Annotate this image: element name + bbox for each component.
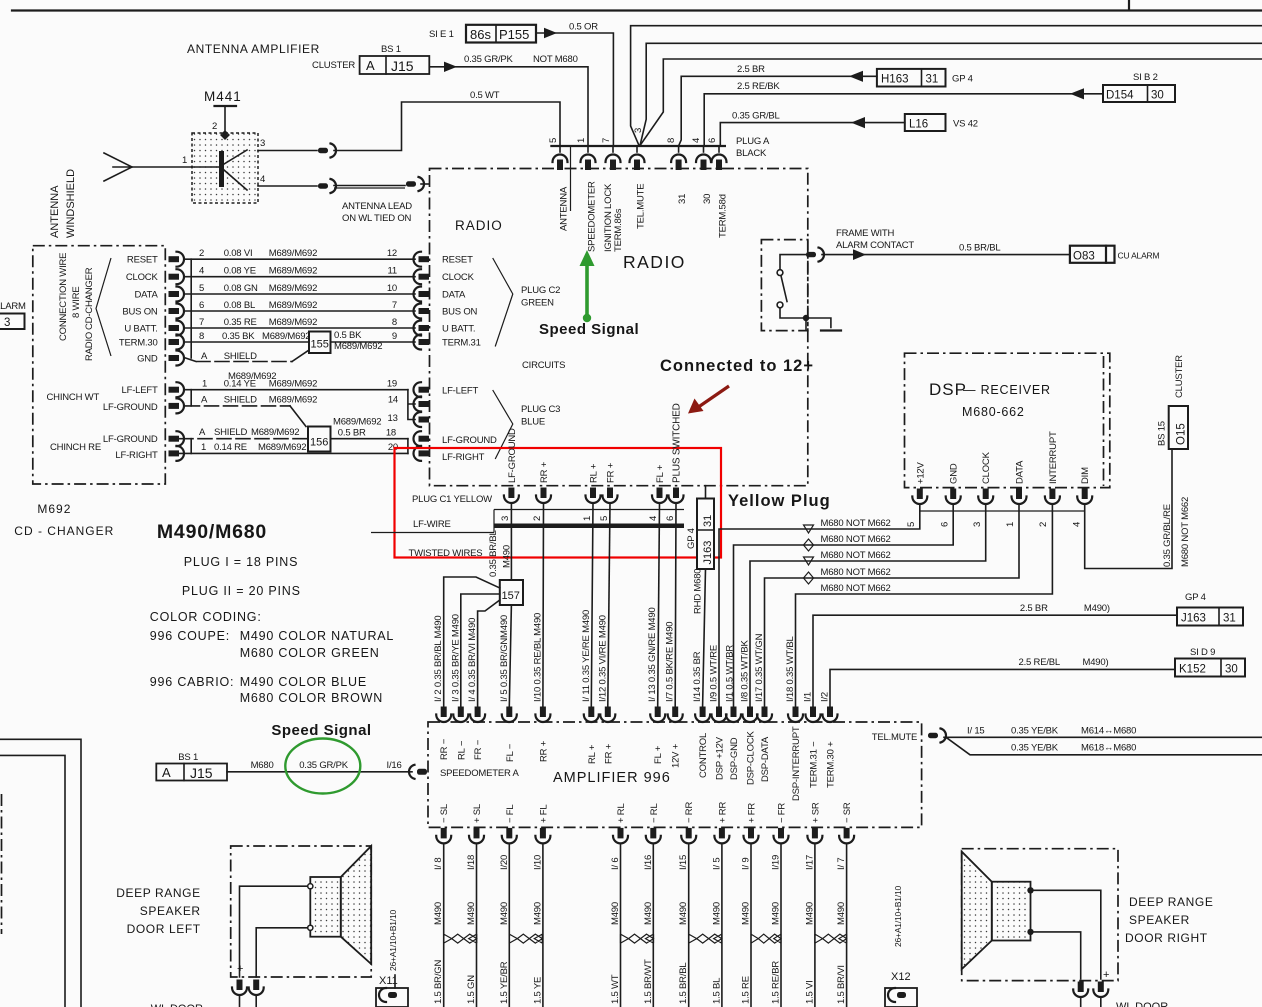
svg-text:SHIELD: SHIELD — [224, 395, 257, 406]
radio plug A pin 6 — [718, 146, 720, 152]
svg-text:− SR: − SR — [842, 802, 853, 823]
svg-text:M689/M692: M689/M692 — [258, 442, 306, 453]
connector X11 — [376, 975, 408, 1007]
svg-text:LF-GROUND: LF-GROUND — [442, 435, 497, 446]
wire row chinch 18 shield — [179, 417, 408, 439]
svg-text:ON WL TIED ON: ON WL TIED ON — [342, 213, 412, 224]
svg-text:VS 42: VS 42 — [953, 119, 978, 130]
antenna windshield symbol — [104, 153, 192, 181]
svg-text:I/2: I/2 — [820, 692, 831, 702]
svg-text:8: 8 — [666, 138, 677, 143]
svg-text:0.35 GR/BL/RE: 0.35 GR/BL/RE — [1162, 504, 1173, 567]
DSP pin labels — [915, 431, 1091, 484]
radio plug A pin 5 — [559, 146, 561, 152]
svg-text:1: 1 — [182, 155, 187, 166]
svg-text:DATA: DATA — [1015, 460, 1026, 484]
svg-text:I/ 9: I/ 9 — [741, 858, 752, 870]
svg-text:1.5 YE/BR: 1.5 YE/BR — [499, 961, 510, 1004]
svg-text:A: A — [162, 765, 171, 780]
wire line4 to tel.mute pin — [640, 59, 1262, 146]
svg-text:M490: M490 — [502, 545, 513, 568]
wire 0.35 GR/PK speed signal — [227, 760, 412, 772]
wire DIM to cluster O15 — [1085, 449, 1172, 569]
svg-text:I/1: I/1 — [803, 692, 814, 702]
svg-text:4: 4 — [691, 138, 702, 143]
yellow plug highlight box — [395, 448, 722, 558]
svg-text:0.5 WT: 0.5 WT — [470, 90, 500, 101]
radio plug C1 pins — [504, 488, 684, 504]
splice 157 — [500, 580, 523, 605]
labels M680 NOT M662 — [821, 518, 891, 594]
radio plug A pin 4 — [703, 146, 705, 152]
svg-text:0.35 BK: 0.35 BK — [222, 331, 255, 342]
svg-text:5: 5 — [906, 522, 917, 527]
svg-text:0.08 GN: 0.08 GN — [224, 283, 258, 294]
svg-text:RL +: RL + — [587, 744, 598, 764]
brace plug C2 — [493, 258, 513, 347]
connector O15 (cluster BS 15) — [1157, 355, 1189, 449]
svg-text:ALARM CONTACT: ALARM CONTACT — [836, 240, 914, 251]
svg-text:GREEN: GREEN — [521, 298, 554, 309]
svg-text:M680 NOT M662: M680 NOT M662 — [821, 567, 891, 578]
svg-text:GP 4: GP 4 — [952, 74, 973, 85]
svg-text:0.35 YE/BK: 0.35 YE/BK — [1011, 726, 1059, 737]
amp bottom pin labels — [439, 802, 853, 823]
svg-text:M689/M692: M689/M692 — [333, 417, 381, 428]
svg-text:M689/M692: M689/M692 — [334, 341, 382, 352]
svg-text:U BATT.: U BATT. — [124, 324, 157, 335]
svg-text:0.08 VI: 0.08 VI — [224, 248, 253, 259]
TEL.MUTE pin — [872, 726, 1262, 755]
svg-text:DIM: DIM — [1080, 467, 1091, 484]
svg-text:TWISTED WIRES: TWISTED WIRES — [409, 548, 483, 559]
CD changer pins — [169, 252, 185, 461]
svg-text:BS 1: BS 1 — [381, 44, 401, 55]
svg-text:PLUG II = 20 PINS: PLUG II = 20 PINS — [182, 584, 301, 598]
wire 2.5 BR to J163 — [813, 603, 1177, 706]
wire M680 row5 — [796, 505, 1053, 706]
svg-text:2: 2 — [532, 516, 543, 521]
svg-text:LF-LEFT: LF-LEFT — [442, 386, 478, 397]
svg-text:M490: M490 — [466, 902, 477, 925]
svg-text:BLUE: BLUE — [521, 417, 545, 428]
svg-text:M680 NOT M662: M680 NOT M662 — [821, 583, 891, 594]
svg-text:I/ 5: I/ 5 — [711, 858, 722, 870]
svg-text:DEEP RANGE: DEEP RANGE — [116, 886, 200, 900]
svg-text:TERM.31: TERM.31 — [442, 338, 481, 349]
svg-text:I/12 0.35 VI/RE M490: I/12 0.35 VI/RE M490 — [597, 615, 608, 702]
svg-text:CU ALARM: CU ALARM — [1118, 251, 1160, 261]
svg-text:M689/M692: M689/M692 — [251, 427, 299, 438]
wire row U BATT — [186, 317, 416, 328]
wire line3 to tel.mute pin — [640, 43, 1262, 145]
svg-text:6: 6 — [665, 516, 676, 521]
svg-text:BUS ON: BUS ON — [442, 307, 478, 318]
svg-text:RESET: RESET — [127, 255, 158, 266]
wire row CLOCK — [186, 266, 416, 277]
svg-text:GND: GND — [137, 354, 158, 365]
DSP pins — [912, 489, 1092, 505]
svg-text:8 WIRE: 8 WIRE — [71, 286, 82, 318]
alarm contact pin — [806, 248, 824, 262]
label DEEP RANGE SPEAKER DOOR LEFT — [116, 886, 201, 936]
svg-text:COLOR CODING:: COLOR CODING: — [150, 610, 262, 624]
radio side shield bus — [408, 390, 415, 454]
svg-text:PLUG A: PLUG A — [736, 136, 770, 147]
svg-text:M490: M490 — [643, 902, 654, 925]
svg-text:DSP-CLOCK: DSP-CLOCK — [746, 731, 757, 785]
svg-text:18: 18 — [386, 428, 396, 439]
svg-text:1: 1 — [202, 379, 207, 390]
svg-text:ANTENNA AMPLIFIER: ANTENNA AMPLIFIER — [187, 42, 320, 56]
svg-text:J15: J15 — [391, 58, 414, 74]
wire M680 row1 — [719, 505, 920, 706]
svg-text:M490: M490 — [771, 902, 782, 925]
svg-text:7: 7 — [601, 138, 612, 143]
svg-text:I/ 5 0.35 BR/GNM490: I/ 5 0.35 BR/GNM490 — [499, 615, 510, 702]
svg-text:CONTROL: CONTROL — [698, 733, 709, 778]
speedometer A pin — [409, 765, 427, 779]
wire RL- fan — [461, 594, 500, 706]
radio top pin labels — [559, 181, 729, 252]
svg-text:RADIO: RADIO — [623, 252, 686, 272]
svg-text:DOOR LEFT: DOOR LEFT — [127, 922, 201, 936]
svg-text:0.35 RE: 0.35 RE — [224, 317, 257, 328]
svg-text:M692: M692 — [37, 502, 71, 516]
svg-text:M689/M692: M689/M692 — [269, 379, 317, 390]
svg-text:J15: J15 — [190, 765, 213, 781]
svg-text:I/ 7: I/ 7 — [836, 858, 847, 870]
wire RR+ — [542, 503, 545, 706]
svg-text:8: 8 — [199, 331, 204, 342]
svg-text:I/ 3 0.35 BR/YE M490: I/ 3 0.35 BR/YE M490 — [450, 614, 461, 702]
svg-text:M490: M490 — [532, 902, 543, 925]
connector J163|31 right (GP 4) — [1177, 592, 1243, 626]
svg-text:− RL: − RL — [649, 803, 660, 823]
svg-text:M680-662: M680-662 — [962, 405, 1025, 419]
svg-text:DSP-DATA: DSP-DATA — [760, 736, 771, 782]
wire 2.5 BR to pin 31 — [679, 64, 877, 146]
svg-text:CIRCUITS: CIRCUITS — [522, 360, 565, 371]
svg-text:4: 4 — [260, 174, 265, 185]
radio plug C3 pins — [414, 382, 430, 461]
svg-text:TEL.MUTE: TEL.MUTE — [872, 732, 917, 743]
svg-text:0.08 BL: 0.08 BL — [224, 300, 255, 311]
cluster connector A|J15 (BS 1) — [312, 44, 429, 74]
wire line2 to tel.mute pin — [631, 26, 1262, 146]
svg-text:31: 31 — [702, 515, 714, 527]
svg-text:Connected to 12+: Connected to 12+ — [660, 357, 814, 375]
left edge dash border — [1, 794, 3, 934]
alarm contact switch box — [761, 240, 807, 331]
wire row chinch 14 shield — [186, 395, 399, 427]
svg-text:RADIO: RADIO — [455, 218, 503, 233]
svg-text:I/16: I/16 — [387, 760, 402, 771]
wire 2.5 RE/BK to pin 30 — [704, 81, 1103, 146]
svg-text:0.35 GR/PK: 0.35 GR/PK — [464, 54, 514, 65]
svg-text:K152: K152 — [1179, 664, 1206, 676]
svg-text:M689/M692: M689/M692 — [269, 283, 317, 294]
svg-text:I/18: I/18 — [466, 855, 477, 870]
svg-text:M680 NOT M662: M680 NOT M662 — [821, 518, 891, 529]
wire LF-GROUND to splice 157 — [510, 503, 512, 580]
radio top pin numbers — [548, 128, 718, 143]
svg-text:1: 1 — [1005, 522, 1016, 527]
svg-text:DSP-INTERRUPT: DSP-INTERRUPT — [791, 726, 802, 801]
svg-text:12: 12 — [387, 248, 397, 259]
svg-text:CD - CHANGER: CD - CHANGER — [14, 524, 114, 538]
svg-text:FR −: FR − — [473, 739, 484, 760]
svg-text:PLUS SWITCHED: PLUS SWITCHED — [672, 403, 683, 483]
wire M680 row4 — [765, 505, 1020, 706]
wire row TERM30 — [186, 330, 416, 352]
wire RL+ — [591, 503, 593, 706]
splice 155 — [309, 332, 331, 354]
svg-text:I/18 0.35 WT/BL: I/18 0.35 WT/BL — [785, 636, 796, 702]
svg-text:2: 2 — [1038, 522, 1049, 527]
right speaker wires — [1031, 890, 1101, 979]
svg-text:12V +: 12V + — [671, 743, 682, 768]
arrow connected to 12+ — [688, 386, 729, 414]
svg-text:CHINCH RE: CHINCH RE — [50, 442, 101, 453]
svg-text:996 COUPE:: 996 COUPE: — [150, 629, 230, 643]
connector K152|30 (SI D 9) — [1175, 647, 1245, 677]
svg-text:SI D 9: SI D 9 — [1190, 647, 1215, 658]
svg-text:3: 3 — [500, 516, 511, 521]
svg-text:SPEAKER: SPEAKER — [1129, 913, 1190, 927]
svg-text:SHIELD: SHIELD — [224, 351, 257, 362]
svg-text:I/ 8: I/ 8 — [433, 858, 444, 870]
svg-text:DSP +12V: DSP +12V — [715, 736, 726, 780]
svg-text:RL −: RL − — [456, 740, 467, 760]
svg-text:WL DOOR: WL DOOR — [151, 1003, 203, 1007]
svg-text:NOT M680: NOT M680 — [533, 54, 578, 65]
brace — [96, 258, 111, 356]
svg-text:0.5 BK: 0.5 BK — [334, 330, 362, 341]
label DEEP RANGE SPEAKER DOOR RIGHT — [1125, 895, 1213, 945]
svg-text:TEL.MUTE: TEL.MUTE — [636, 184, 647, 229]
svg-text:D154: D154 — [1106, 90, 1134, 102]
svg-text:I/ 15: I/ 15 — [967, 726, 985, 737]
svg-text:3: 3 — [260, 138, 265, 149]
svg-text:0.5 BR/BL: 0.5 BR/BL — [959, 243, 1001, 254]
svg-text:CD-CHANGER: CD-CHANGER — [84, 267, 95, 330]
svg-text:− FL: − FL — [505, 805, 516, 823]
svg-text:PLUG C2: PLUG C2 — [521, 285, 560, 296]
svg-text:P155: P155 — [499, 27, 529, 42]
wire 2.5 RE/BL to K152 — [830, 657, 1175, 706]
svg-text:31: 31 — [1223, 613, 1236, 625]
svg-text:+ FL: + FL — [538, 805, 549, 823]
connector D154|30 (SI B 2) — [1103, 72, 1175, 102]
svg-text:RADIO: RADIO — [84, 332, 95, 361]
wire color labels — [433, 959, 847, 1004]
DSP pin row line — [920, 510, 1085, 512]
svg-text:TERM.86s: TERM.86s — [613, 208, 624, 252]
wire pin4 antenna lead — [258, 174, 429, 224]
svg-text:1: 1 — [582, 516, 593, 521]
svg-text:SPEEDOMETER A: SPEEDOMETER A — [440, 768, 520, 779]
partial CU alarm connector at left edge — [0, 301, 26, 329]
svg-text:TERM.58d: TERM.58d — [718, 194, 729, 238]
svg-text:2.5 BR: 2.5 BR — [1020, 603, 1048, 614]
svg-text:BS 1: BS 1 — [178, 752, 198, 763]
svg-text:1.5 YE: 1.5 YE — [532, 977, 543, 1004]
amp wire labels rotated — [433, 569, 830, 702]
svg-text:M441: M441 — [204, 89, 242, 104]
svg-text:GND: GND — [949, 463, 960, 484]
svg-text:LF-GROUND: LF-GROUND — [103, 402, 158, 413]
wire number labels — [433, 855, 847, 870]
svg-text:0.35 BR/BL: 0.35 BR/BL — [488, 530, 499, 577]
wire row RESET — [186, 248, 416, 259]
svg-text:RR −: RR − — [439, 738, 450, 760]
svg-text:O15: O15 — [1176, 423, 1188, 445]
svg-text:2.5 RE/BL: 2.5 RE/BL — [1019, 657, 1061, 668]
svg-text:CLOCK: CLOCK — [126, 272, 159, 283]
svg-text:M689/M692: M689/M692 — [269, 248, 317, 259]
wire 0.35 GR/PK to speedometer pin — [429, 54, 588, 146]
svg-text:M490: M490 — [678, 902, 689, 925]
svg-text:FL −: FL − — [505, 743, 516, 762]
svg-text:I/ 13 0.35 GN/RE M490: I/ 13 0.35 GN/RE M490 — [647, 607, 658, 702]
svg-text:0.35 GR/BL: 0.35 GR/BL — [732, 111, 780, 122]
svg-text:M689/M692: M689/M692 — [269, 395, 317, 406]
wire 0.5 BR/BL to alarm — [822, 228, 1070, 260]
radio plug A bus line — [551, 145, 725, 147]
plug C1 pin numbers — [500, 516, 676, 521]
svg-text:ANTENNA: ANTENNA — [559, 186, 570, 231]
speedometer A input connector A|J15 (BS 1) — [156, 752, 227, 781]
LF-WIRE thin line — [371, 510, 684, 533]
svg-text:TERM.30: TERM.30 — [119, 338, 158, 349]
svg-text:14: 14 — [388, 395, 398, 406]
svg-text:J163: J163 — [1181, 613, 1206, 625]
wire FR+ — [608, 503, 610, 706]
wire 12V+ — [674, 503, 677, 706]
svg-text:LF-RIGHT: LF-RIGHT — [442, 452, 485, 463]
connector J163|31 side (GP 4) — [686, 486, 714, 569]
svg-text:FL +: FL + — [653, 745, 664, 764]
svg-text:CLOCK: CLOCK — [981, 451, 992, 484]
svg-text:10: 10 — [387, 283, 397, 294]
svg-text:0.14 YE: 0.14 YE — [224, 379, 256, 390]
svg-text:30: 30 — [1151, 90, 1164, 102]
svg-text:RR +: RR + — [539, 461, 550, 483]
svg-text:31: 31 — [677, 194, 688, 204]
svg-text:5: 5 — [548, 138, 559, 143]
wire row GND shield — [186, 350, 310, 382]
switch contacts — [777, 255, 841, 331]
svg-text:1.5 WT: 1.5 WT — [610, 974, 621, 1004]
svg-text:M490: M490 — [804, 902, 815, 925]
radio plug C1 labels rotated — [507, 403, 683, 483]
left speaker wires — [240, 886, 308, 977]
svg-text:1: 1 — [201, 442, 206, 453]
svg-text:I/17 0.35 WT/GN: I/17 0.35 WT/GN — [754, 633, 765, 702]
svg-text:156: 156 — [310, 437, 328, 449]
svg-text:CHINCH WT: CHINCH WT — [47, 392, 100, 403]
svg-text:— RECEIVER: — RECEIVER — [963, 383, 1051, 397]
svg-text:I/ 4 0.35 BR/VI M490: I/ 4 0.35 BR/VI M490 — [467, 618, 478, 702]
speaker wires down — [444, 845, 847, 1007]
svg-text:3: 3 — [4, 317, 10, 329]
connector X12 — [885, 971, 917, 1007]
wire 0.5 OR to ignition pin — [536, 22, 613, 147]
radio box — [430, 169, 808, 486]
svg-text:M618↔M680: M618↔M680 — [1081, 743, 1136, 754]
svg-text:Yellow Plug: Yellow Plug — [728, 492, 831, 510]
svg-text:+ RL: + RL — [616, 803, 627, 823]
svg-text:M490): M490) — [1084, 603, 1110, 614]
svg-text:1.5 BR/GN: 1.5 BR/GN — [433, 960, 444, 1004]
svg-text:M680 COLOR GREEN: M680 COLOR GREEN — [240, 646, 380, 660]
svg-text:1.5 BL: 1.5 BL — [711, 978, 722, 1004]
DSP pin numbers — [906, 522, 1083, 527]
svg-text:I/8 0.35 WT/BK: I/8 0.35 WT/BK — [740, 640, 751, 702]
svg-text:RESET: RESET — [442, 255, 473, 266]
svg-text:4: 4 — [1072, 522, 1083, 527]
svg-text:6: 6 — [940, 522, 951, 527]
svg-text:Speed Signal: Speed Signal — [271, 722, 371, 739]
svg-text:2: 2 — [212, 121, 217, 132]
svg-text:I/10: I/10 — [532, 855, 543, 870]
svg-text:0.14 RE: 0.14 RE — [214, 442, 247, 453]
svg-text:M680 COLOR BROWN: M680 COLOR BROWN — [240, 691, 383, 705]
svg-text:TERM.31 −: TERM.31 − — [809, 741, 820, 788]
LF-WIRE heavy bar — [494, 524, 684, 529]
radio plug A pin 7 — [612, 146, 614, 152]
svg-text:I/ 2 0.35 BR/BL M490: I/ 2 0.35 BR/BL M490 — [433, 616, 444, 702]
svg-text:FRAME WITH: FRAME WITH — [836, 228, 894, 239]
svg-text:SPEAKER: SPEAKER — [140, 904, 201, 918]
svg-text:19: 19 — [387, 379, 397, 390]
svg-text:U BATT.: U BATT. — [442, 324, 475, 335]
svg-text:1.5 BR/VI: 1.5 BR/VI — [836, 965, 847, 1004]
svg-text:A: A — [199, 427, 206, 438]
svg-text:L16: L16 — [909, 119, 928, 131]
svg-text:GP 4: GP 4 — [686, 528, 697, 549]
svg-text:7: 7 — [392, 300, 397, 311]
svg-text:1.5 BR/WT: 1.5 BR/WT — [643, 959, 654, 1004]
svg-text:M490: M490 — [433, 902, 444, 925]
svg-text:LF-GROUND: LF-GROUND — [103, 434, 158, 445]
right speaker — [962, 852, 1034, 970]
radio left pin labels — [442, 255, 497, 464]
svg-text:SPEEDOMETER: SPEEDOMETER — [587, 181, 598, 252]
svg-text:9: 9 — [392, 331, 397, 342]
wire FL- — [509, 605, 511, 706]
svg-text:M680 NOT M662: M680 NOT M662 — [821, 534, 891, 545]
svg-text:M490 COLOR BLUE: M490 COLOR BLUE — [240, 675, 367, 689]
svg-text:M490: M490 — [711, 902, 722, 925]
svg-text:+ RR: + RR — [717, 802, 728, 823]
svg-text:1.5 GN: 1.5 GN — [466, 975, 477, 1004]
svg-text:M680 NOT M662: M680 NOT M662 — [1180, 497, 1191, 567]
svg-text:4: 4 — [648, 516, 659, 521]
DSP receiver box — [905, 353, 1110, 487]
svg-text:SHIELD: SHIELD — [214, 427, 247, 438]
svg-text:I/15: I/15 — [678, 855, 689, 870]
connector L16 (VS 42) — [905, 114, 978, 131]
svg-text:J163: J163 — [702, 541, 714, 565]
svg-text:FR +: FR + — [603, 743, 614, 764]
svg-text:TERM.30 +: TERM.30 + — [826, 741, 837, 788]
svg-text:I/19: I/19 — [771, 855, 782, 870]
svg-text:Speed Signal: Speed Signal — [539, 321, 639, 338]
svg-text:H163: H163 — [881, 74, 909, 86]
svg-text:LF-WIRE: LF-WIRE — [413, 519, 451, 530]
